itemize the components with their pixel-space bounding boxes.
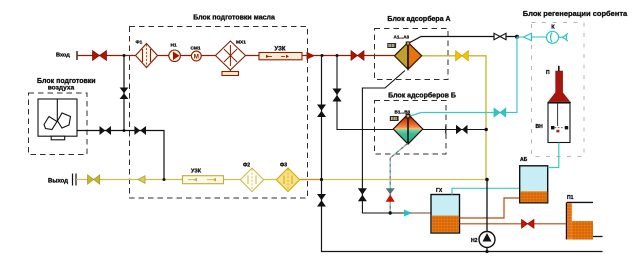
pipe: orange segment after F3: [296, 179, 323, 181]
check valve: cyan check into compressor: [524, 33, 532, 41]
valve: outline valve on top line: [494, 33, 506, 39]
svg-text:К: К: [551, 25, 555, 31]
pipe: cyan line heater to tank AB: [548, 143, 559, 168]
svg-text:ВВ: ВВ: [388, 43, 394, 48]
flow arrow: oil line exit arrow: [307, 52, 316, 60]
filter F3: [276, 168, 299, 192]
pipe: oil return yellow line: [76, 179, 308, 181]
svg-text:УЗК: УЗК: [191, 169, 202, 175]
pipe: cyan riser to regeneration: [421, 37, 517, 113]
adsorber A diamond: [394, 42, 421, 70]
compressor K: [547, 31, 568, 43]
node: B line end junction: [485, 128, 488, 131]
heat exchanger MX1: [216, 41, 246, 76]
valve: vertical valve x=362.4: [358, 188, 367, 201]
pump H1: [169, 50, 181, 62]
valve: black valve on feed x=337: [332, 89, 341, 102]
svg-text:Вход: Вход: [56, 53, 70, 59]
pipe: cyan stub junction to check valve: [517, 36, 524, 38]
pipe: main oil inlet line y=55.5: [77, 55, 394, 57]
pipe: black line feed to adsorber B: [337, 56, 486, 130]
pipe: orange line tank GH to settler: [460, 223, 567, 225]
node: junction x=337: [336, 54, 339, 57]
flow arrow: cyan arrow to tank GH: [404, 210, 412, 217]
svg-text:Ф2: Ф2: [243, 163, 250, 169]
tank AB: [520, 166, 548, 203]
wire: outlet double tick: [72, 174, 74, 186]
svg-text:АБ: АБ: [520, 157, 528, 163]
pipe: cyan diagonal from adsorber B apex: [409, 113, 421, 117]
block box: adsorber B dashed border: [375, 101, 447, 155]
valve: black valve x=321.5 lower: [317, 194, 326, 207]
node: tick on B line at box border: [445, 126, 447, 134]
svg-text:Блок регенерации сорбента: Блок регенерации сорбента: [523, 9, 628, 18]
svg-text:МХ1: МХ1: [236, 40, 246, 46]
pipe: vertical line x=321.5 from main to bottom: [322, 56, 603, 252]
block box: oil preparation dashed border: [130, 27, 308, 199]
svg-text:ГХ: ГХ: [436, 188, 443, 194]
furnace torch: [548, 66, 571, 103]
svg-text:П1: П1: [567, 195, 574, 201]
node: junction at x=124: [123, 54, 126, 57]
valve: black valve x=321.5 upper: [317, 105, 326, 118]
node: junction yellow end x=487: [485, 178, 489, 182]
valve: outlet olive valve: [88, 175, 100, 185]
pipe: cyan line check valve to compressor: [532, 36, 547, 38]
node: junction regeneration inlet: [515, 35, 519, 39]
valve: red valve before adsorber A: [351, 51, 364, 61]
svg-text:УЗК: УЗК: [274, 47, 285, 53]
node: junction x=322: [321, 54, 324, 57]
valve: inlet red valve: [93, 51, 107, 61]
pipe: diagonal from adsorber A bottom to vertical x=362.4: [362, 71, 405, 214]
pipe: oil return orange segment: [323, 179, 487, 181]
svg-text:Выход: Выход: [48, 179, 68, 185]
pump H2: [486, 180, 488, 252]
filter F1: [136, 44, 158, 68]
svg-text:Н1: Н1: [171, 43, 177, 49]
tank GH: [431, 195, 460, 234]
valve: two-tone valve on drain: [386, 188, 395, 194]
pipe: regeneration drain diagonal from adsorber B: [390, 144, 407, 214]
pipe: adsorber A outlet yellow line: [421, 56, 486, 180]
valve: air valve 1: [100, 126, 112, 135]
settler tank: [567, 202, 603, 239]
svg-text:Ф1: Ф1: [136, 40, 143, 46]
svg-text:М: М: [194, 53, 199, 60]
node: air junction x=124: [123, 129, 126, 132]
pipe: top black line from adsorber A apex to regeneration: [408, 37, 517, 44]
wire: inlet start tick: [76, 51, 78, 60]
valve: black valve after adsorber B: [456, 125, 468, 134]
svg-text:ВН: ВН: [536, 124, 544, 130]
node: junction air drop on return line: [163, 178, 166, 181]
check valve: yellow check on return: [138, 176, 145, 184]
svg-text:П: П: [546, 70, 550, 76]
motor CM1: [191, 51, 201, 61]
pipe: orange line tank GH to tank AB: [460, 198, 520, 218]
air block: compressor unit square: [38, 99, 77, 140]
node: junction yellow/vertical x=321.5: [320, 178, 323, 181]
svg-text:СМ1: СМ1: [191, 45, 201, 51]
filter F2: [240, 168, 263, 192]
svg-text:воздуха: воздуха: [48, 85, 75, 92]
block box: sorbent regeneration dashed border: [532, 23, 585, 157]
valve: black valve x=124 on vertical: [123, 56, 125, 131]
pipe: air outlet line: [78, 131, 165, 180]
flow meter UZK2: [183, 176, 224, 184]
block box: air preparation dashed border: [29, 93, 88, 155]
pipe: transfer line into tank GH: [410, 212, 431, 214]
valve: red valve on settler line: [522, 219, 535, 228]
svg-text:Блок адсорбера А: Блок адсорбера А: [387, 15, 450, 23]
svg-text:Блок адсорберов Б: Блок адсорберов Б: [388, 92, 456, 100]
valve: air valve 2: [134, 126, 146, 135]
svg-text:Н2: Н2: [471, 238, 478, 244]
node: junction drain to transfer line: [389, 211, 392, 214]
pipe: cyan line tank GH to tank AB: [452, 188, 520, 194]
svg-text:Ф3: Ф3: [280, 163, 287, 169]
block box: adsorber A dashed border: [375, 29, 449, 80]
svg-text:ВВ: ВВ: [391, 116, 397, 121]
svg-text:А1...А3: А1...А3: [394, 35, 410, 40]
svg-text:Блок подготовки масла: Блок подготовки масла: [193, 15, 275, 22]
valve: golden valve on A outlet: [456, 51, 469, 61]
valve: cyan valve on B outlet: [494, 108, 506, 117]
heater box BH: [548, 103, 570, 143]
flow meter UZK: [259, 53, 302, 60]
